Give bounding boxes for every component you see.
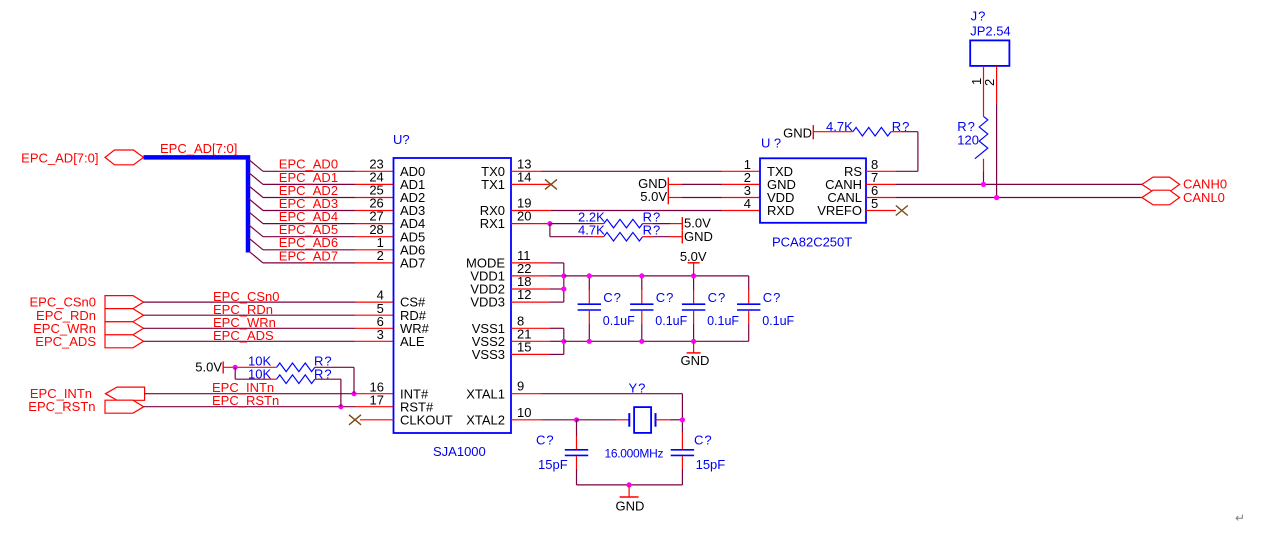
svg-text:C?: C? xyxy=(763,290,782,305)
svg-text:EPC_ADS: EPC_ADS xyxy=(35,334,96,349)
wire 2.2K to 5.0V xyxy=(643,223,653,225)
junction GND tap xyxy=(627,482,632,487)
port EPC_AD[7:0] xyxy=(105,150,144,165)
junction XTAL2-cap xyxy=(574,417,579,422)
svg-text:AD7: AD7 xyxy=(400,256,425,271)
wire 5.0V to pin3 xyxy=(668,197,681,199)
svg-text:↵: ↵ xyxy=(1235,511,1245,525)
svg-text:4: 4 xyxy=(744,196,751,211)
wire RX1 branch down xyxy=(549,224,551,237)
junction VDD1 xyxy=(561,273,566,278)
bus entry + wire EPC_AD7 xyxy=(249,251,264,263)
port EPC_INTn xyxy=(106,387,145,400)
port EPC_WRn xyxy=(105,322,144,335)
svg-text:VDD3: VDD3 xyxy=(470,295,505,310)
junction VSS2 xyxy=(561,339,566,344)
svg-text:15pF: 15pF xyxy=(696,457,726,472)
svg-text:U?: U? xyxy=(393,132,410,147)
capacitor C? 15pF left xyxy=(576,420,578,436)
junction top rail cap2 xyxy=(639,273,644,278)
svg-text:CANL0: CANL0 xyxy=(1183,190,1225,205)
wire to 4.7K xyxy=(550,236,594,238)
wire VSS1 xyxy=(511,327,550,329)
bus entry + wire EPC_AD2 xyxy=(249,186,264,198)
svg-text:RX1: RX1 xyxy=(480,216,505,231)
resistor R? 10K (INT pull-up) xyxy=(277,363,315,372)
wire EPC_RSTn xyxy=(144,406,356,408)
wire 4.7K to GND xyxy=(643,236,653,238)
wire GND to 4.7K xyxy=(813,131,853,133)
svg-text:R?: R? xyxy=(957,119,976,134)
svg-text:VSS3: VSS3 xyxy=(472,347,505,362)
wire crystal right xyxy=(656,419,670,421)
svg-text:4.7K: 4.7K xyxy=(578,222,605,237)
capacitor C? 0.1uF #1 stems xyxy=(588,276,590,290)
wire MODE xyxy=(511,262,550,264)
svg-text:EPC_RSTn: EPC_RSTn xyxy=(28,399,95,414)
capacitor C? 0.1uF #3 stems xyxy=(693,276,695,290)
crystal bottom rail xyxy=(577,484,683,486)
svg-text:EPC_AD[7:0]: EPC_AD[7:0] xyxy=(21,150,98,165)
resistor R? 120 (termination) xyxy=(975,116,988,158)
bus entry + wire EPC_AD3 xyxy=(249,199,264,211)
wire RX1 to 2.2K xyxy=(550,223,594,225)
wire EPC_WRn xyxy=(144,327,356,329)
pin stub VREFO xyxy=(866,210,896,212)
junction on INT# wire xyxy=(351,391,356,396)
svg-text:C?: C? xyxy=(656,290,675,305)
port CANH0 xyxy=(1142,177,1180,192)
wire CANL xyxy=(866,197,896,199)
svg-text:GND: GND xyxy=(684,229,713,244)
bus entry + wire EPC_AD0 xyxy=(249,159,264,171)
wire GND to pin2 xyxy=(668,183,681,185)
junction on RST# wire xyxy=(338,404,343,409)
svg-text:5.0V: 5.0V xyxy=(680,249,707,264)
svg-text:5.0V: 5.0V xyxy=(640,189,667,204)
no-connect X on TX1 xyxy=(545,179,557,189)
svg-text:U?: U? xyxy=(761,136,785,151)
svg-text:GND: GND xyxy=(783,125,812,140)
svg-text:R?: R? xyxy=(643,222,662,237)
wire TX0 to TXD xyxy=(511,170,542,172)
svg-text:ALE: ALE xyxy=(400,334,425,349)
wire VDD2 xyxy=(511,288,550,290)
svg-text:EPC_RSTn: EPC_RSTn xyxy=(212,393,279,408)
svg-text:9: 9 xyxy=(517,379,524,394)
svg-text:GND: GND xyxy=(616,498,645,513)
svg-text:TX1: TX1 xyxy=(481,177,505,192)
wire pin2 to CANL xyxy=(996,104,998,197)
wire XTAL1 xyxy=(511,393,542,395)
pin stub TX1 xyxy=(511,183,550,185)
power port GND (4.7K) xyxy=(681,230,683,243)
bus entry + wire EPC_AD5 xyxy=(249,225,264,237)
svg-text:J?: J? xyxy=(971,8,987,23)
svg-text:16.000MHz: 16.000MHz xyxy=(605,446,664,460)
bus entry + wire EPC_AD1 xyxy=(249,172,264,184)
svg-text:0.1uF: 0.1uF xyxy=(603,314,635,328)
IC U? SJA1000 body xyxy=(394,158,512,433)
wire VDD3 xyxy=(511,301,550,303)
svg-text:2: 2 xyxy=(377,248,384,263)
port EPC_ADS xyxy=(105,335,144,348)
capacitor C? 15pF right xyxy=(671,449,694,451)
svg-text:C?: C? xyxy=(708,290,727,305)
svg-text:120: 120 xyxy=(957,133,979,148)
svg-text:EPC_ADS: EPC_ADS xyxy=(213,328,274,343)
svg-text:VREFO: VREFO xyxy=(817,203,862,218)
capacitor C? 0.1uF #2 stems xyxy=(641,276,643,290)
svg-text:0.1uF: 0.1uF xyxy=(707,314,739,328)
junction crystal-XTAL1 branch xyxy=(680,417,685,422)
svg-text:3: 3 xyxy=(377,327,384,342)
wire CANH xyxy=(866,183,896,185)
port EPC_RSTn xyxy=(105,400,144,413)
svg-text:CLKOUT: CLKOUT xyxy=(400,412,453,427)
svg-text:C?: C? xyxy=(536,433,555,448)
svg-text:10K: 10K xyxy=(248,366,271,381)
pin stub RX1 xyxy=(511,223,550,225)
resistor R? 4.7K (RS) xyxy=(853,127,891,136)
resistor R? 2.2K xyxy=(604,219,643,228)
power port GND (crystal) xyxy=(628,485,630,497)
wire XTAL2 xyxy=(511,419,542,421)
junction top rail cap1 xyxy=(587,273,592,278)
port EPC_CSn0 xyxy=(105,296,144,309)
bus entry + wire EPC_AD6 xyxy=(249,238,264,250)
junction top rail cap3 xyxy=(691,273,696,278)
svg-text:C?: C? xyxy=(603,290,622,305)
pin 2 stub (J) xyxy=(996,66,998,104)
svg-text:JP2.54: JP2.54 xyxy=(970,24,1010,39)
wire R120 to CANH xyxy=(983,159,985,172)
junction bottom rail cap3 xyxy=(691,339,696,344)
wire 4.7K to RS xyxy=(891,131,901,133)
svg-text:5.0V: 5.0V xyxy=(195,359,222,374)
svg-text:EPC_AD7: EPC_AD7 xyxy=(279,248,338,263)
wire EPC_CSn0 xyxy=(144,301,356,303)
svg-text:15pF: 15pF xyxy=(538,457,568,472)
port EPC_RDn xyxy=(105,309,144,322)
svg-text:17: 17 xyxy=(370,393,384,408)
wire VDD1 xyxy=(511,275,550,277)
VDD rail xyxy=(564,275,749,277)
svg-text:EPC_AD[7:0]: EPC_AD[7:0] xyxy=(160,141,237,156)
svg-text:C?: C? xyxy=(694,433,713,448)
svg-text:RXD: RXD xyxy=(767,203,794,218)
junction pin2-CANL xyxy=(994,195,999,200)
svg-text:SJA1000: SJA1000 xyxy=(433,444,486,459)
svg-text:0.1uF: 0.1uF xyxy=(762,314,794,328)
resistor R? 10K (RST pull-up) xyxy=(277,375,315,384)
svg-text:XTAL2: XTAL2 xyxy=(466,412,505,427)
wire 10K to INT# net xyxy=(315,366,354,368)
wire EPC_RDn xyxy=(144,314,356,316)
svg-text:2: 2 xyxy=(982,79,997,86)
bus EPC_AD[7:0] xyxy=(144,157,249,252)
wire EPC_INTn xyxy=(145,393,356,395)
power port GND (VSS rail) xyxy=(693,341,695,353)
svg-text:XTAL1: XTAL1 xyxy=(466,386,505,401)
svg-text:PCA82C250T: PCA82C250T xyxy=(772,235,852,250)
junction bottom rail cap2 xyxy=(639,339,644,344)
wire EPC_ADS xyxy=(144,340,356,342)
svg-text:5: 5 xyxy=(871,196,878,211)
IC U? PCA82C250T body xyxy=(760,158,866,223)
svg-text:0.1uF: 0.1uF xyxy=(655,314,687,328)
svg-text:10: 10 xyxy=(517,405,531,420)
pin 1 stub (J) xyxy=(983,66,985,117)
bus entry + wire EPC_AD4 xyxy=(249,212,264,224)
no-connect X on CLKOUT xyxy=(349,415,361,425)
no-connect X on VREFO xyxy=(896,206,908,216)
junction RX1 xyxy=(547,221,552,226)
junction at 5.0V branch xyxy=(233,365,238,370)
junction bottom rail cap1 xyxy=(587,339,592,344)
wire XTAL2 to crystal xyxy=(577,419,617,421)
capacitor C? 0.1uF #4 stems xyxy=(748,276,750,290)
wire branch down xyxy=(234,367,236,379)
junction R120-CANH xyxy=(981,182,986,187)
crystal Y? 16.000MHz xyxy=(628,413,630,427)
wire VSS2 xyxy=(511,340,550,342)
wire RX0 to RXD xyxy=(511,210,551,212)
svg-text:Y?: Y? xyxy=(629,380,647,395)
svg-text:GND: GND xyxy=(681,353,710,368)
connector J? JP2.54 body xyxy=(970,40,1009,66)
wire to second 10K xyxy=(235,378,266,380)
power port 5.0V (2.2K) xyxy=(681,217,683,230)
junction VDD2 xyxy=(561,286,566,291)
port CANL0 xyxy=(1142,190,1180,205)
resistor R? 4.7K xyxy=(604,232,643,241)
wire VSS3 xyxy=(511,353,550,355)
pin stub CLKOUT xyxy=(360,419,394,421)
VSS rail xyxy=(564,340,749,342)
svg-text:4.7K: 4.7K xyxy=(826,119,853,134)
wire 10K to RST# net xyxy=(315,378,341,380)
wire 5.0V to resistors xyxy=(223,366,276,368)
